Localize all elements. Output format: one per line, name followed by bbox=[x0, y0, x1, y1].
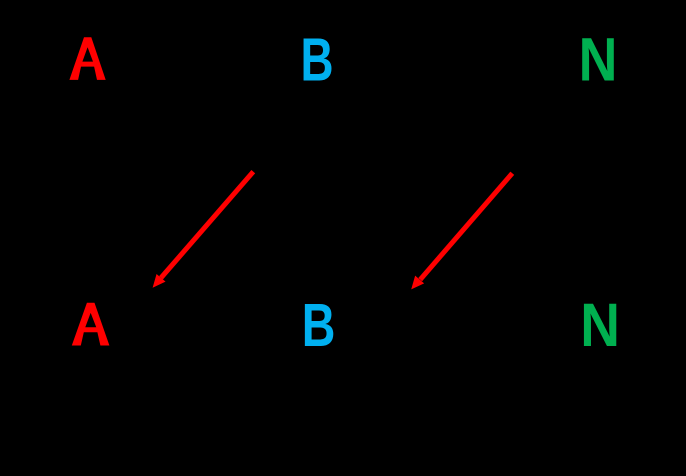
svg-text:B: B bbox=[300, 26, 333, 94]
svg-text:B: B bbox=[302, 291, 336, 360]
svg-text:N: N bbox=[580, 291, 620, 360]
node A (bottom row, red letter A) bbox=[72, 303, 110, 346]
node N (top row, green letter N) bbox=[579, 26, 618, 94]
node B (top row, blue letter B) bbox=[300, 26, 333, 94]
wire: red arrow from top B area to bottom A area bbox=[153, 172, 254, 288]
node A (top row, red letter A) bbox=[69, 37, 105, 80]
node B (bottom row, blue letter B) bbox=[302, 291, 336, 360]
node N (bottom row, green letter N) bbox=[580, 291, 620, 360]
wire: red arrow from top N area to bottom B area bbox=[411, 173, 512, 289]
svg-text:N: N bbox=[579, 26, 618, 94]
